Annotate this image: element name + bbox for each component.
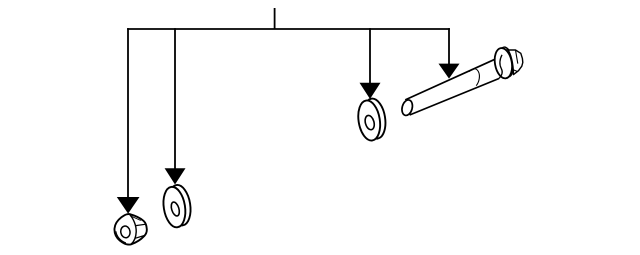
- arrow to bolt: [439, 64, 460, 79]
- flange nut N1: [114, 214, 146, 245]
- wire: horizontal leader line: [127, 28, 450, 30]
- wire: vertical leader to nut: [127, 28, 129, 198]
- bolt shaft: [405, 56, 508, 115]
- nut hex facet line upper: [136, 224, 146, 225]
- nut top chamfer line: [130, 216, 141, 221]
- washer W2 back rim: [361, 97, 388, 140]
- bolt hex head: [507, 48, 523, 74]
- washer W1 hole: [170, 201, 181, 217]
- wire: vertical leader to washer 2: [369, 28, 371, 84]
- wire: vertical leader to bolt: [448, 28, 450, 64]
- washer W1 front face: [161, 185, 188, 229]
- nut outline: [114, 214, 146, 245]
- wire: vertical leader to washer 1: [174, 28, 176, 169]
- washer W2 (upper right): [356, 97, 389, 142]
- bolt hex facet lines: [513, 50, 518, 72]
- nut hole: [120, 225, 131, 238]
- washer W2 hole: [364, 114, 376, 130]
- arrow to washer 1: [165, 168, 186, 184]
- wire: top center stub: [274, 8, 276, 29]
- arrow to washer 2: [360, 83, 381, 99]
- washer W2 front face: [356, 99, 383, 142]
- bolt B1: [400, 46, 522, 117]
- washer W1 (lower left): [161, 183, 194, 229]
- nut hex facet line lower: [135, 236, 145, 239]
- bolt flange back rim: [497, 46, 515, 78]
- arrow to nut: [117, 197, 140, 214]
- nut flange inner edge: [116, 231, 126, 243]
- washer W1 back rim: [166, 183, 193, 227]
- nut face/hex boundary arc: [130, 214, 137, 244]
- bolt shaft-flange neck curve: [499, 55, 502, 79]
- bolt flange front face: [492, 47, 514, 80]
- bolt thread boundary line: [469, 69, 479, 86]
- bolt tip cap: [400, 99, 414, 117]
